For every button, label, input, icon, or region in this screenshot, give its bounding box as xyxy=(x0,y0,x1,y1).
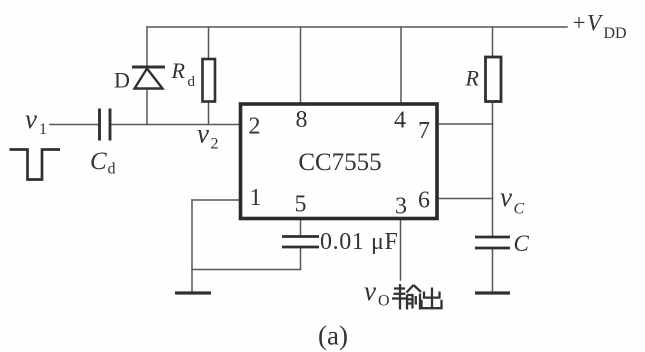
svg-text:v: v xyxy=(364,276,376,306)
svg-text:2: 2 xyxy=(211,136,219,153)
svg-text:v: v xyxy=(197,119,209,149)
svg-text:6: 6 xyxy=(418,188,430,214)
svg-text:5: 5 xyxy=(295,192,307,218)
svg-text:DD: DD xyxy=(604,25,627,42)
svg-text:V: V xyxy=(587,11,604,36)
svg-text:4: 4 xyxy=(394,108,406,134)
svg-text:O: O xyxy=(378,293,390,310)
svg-text:R: R xyxy=(171,58,186,83)
svg-text:3: 3 xyxy=(395,194,407,220)
svg-text:7: 7 xyxy=(418,118,430,144)
svg-text:d: d xyxy=(108,161,116,178)
svg-text:(a): (a) xyxy=(318,321,348,351)
svg-text:1: 1 xyxy=(250,185,262,211)
svg-text:+: + xyxy=(573,10,586,35)
svg-text:C: C xyxy=(514,231,530,256)
svg-text:v: v xyxy=(500,182,512,212)
svg-text:CC7555: CC7555 xyxy=(298,149,381,176)
svg-text:v: v xyxy=(25,104,37,134)
svg-text:2: 2 xyxy=(249,114,261,140)
svg-text:8: 8 xyxy=(296,107,308,133)
svg-text:D: D xyxy=(114,68,130,93)
svg-text:1: 1 xyxy=(39,121,47,138)
svg-text:C: C xyxy=(90,148,107,175)
svg-text:d: d xyxy=(188,74,196,90)
svg-text:C: C xyxy=(514,201,525,218)
svg-text:R: R xyxy=(465,66,480,91)
svg-text:0.01 μF: 0.01 μF xyxy=(320,229,398,255)
